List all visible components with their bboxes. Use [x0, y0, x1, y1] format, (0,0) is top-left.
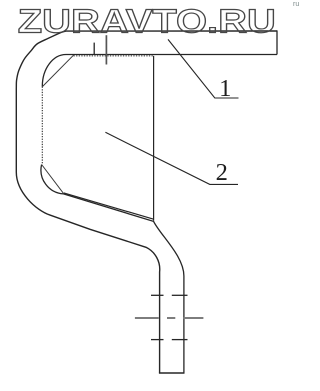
tube break tick lower-left — [151, 339, 164, 341]
flange hole mark right (gray) — [105, 35, 107, 64]
gusset plate bottom edge — [64, 193, 154, 219]
gusset plate (item 2) top edge, dotted — [74, 55, 154, 57]
flange right end edge — [276, 30, 278, 54]
svg-text:2: 2 — [216, 159, 228, 186]
tube break tick lower-right — [172, 339, 188, 341]
gusset top-left chamfer — [42, 55, 73, 86]
svg-text:ZURAVTO.RU: ZURAVTO.RU — [18, 2, 276, 39]
leader line 2 — [105, 132, 238, 184]
svg-text:ru: ru — [293, 1, 299, 8]
tube break tick upper-right — [172, 294, 188, 296]
svg-text:1: 1 — [219, 75, 231, 102]
gusset bottom-left chamfer — [42, 165, 64, 194]
tube break tick upper-left — [151, 294, 164, 296]
bracket inner contour: flange bottom edge and inner bend — [42, 55, 277, 87]
gusset plate left edge, dotted — [41, 87, 43, 165]
leader line 1 — [168, 39, 239, 98]
tube bottom end line — [159, 372, 185, 374]
bracket outer contour (tube item 1): flange top edge, left bend, S-sweep, tube left edge — [16, 31, 277, 373]
gusset plate right edge — [153, 56, 155, 221]
flange hole mark left — [93, 43, 95, 55]
tube centerline (gray dash-dot) — [135, 317, 204, 319]
strap inner edge S-curve into tube right edge — [41, 165, 184, 373]
